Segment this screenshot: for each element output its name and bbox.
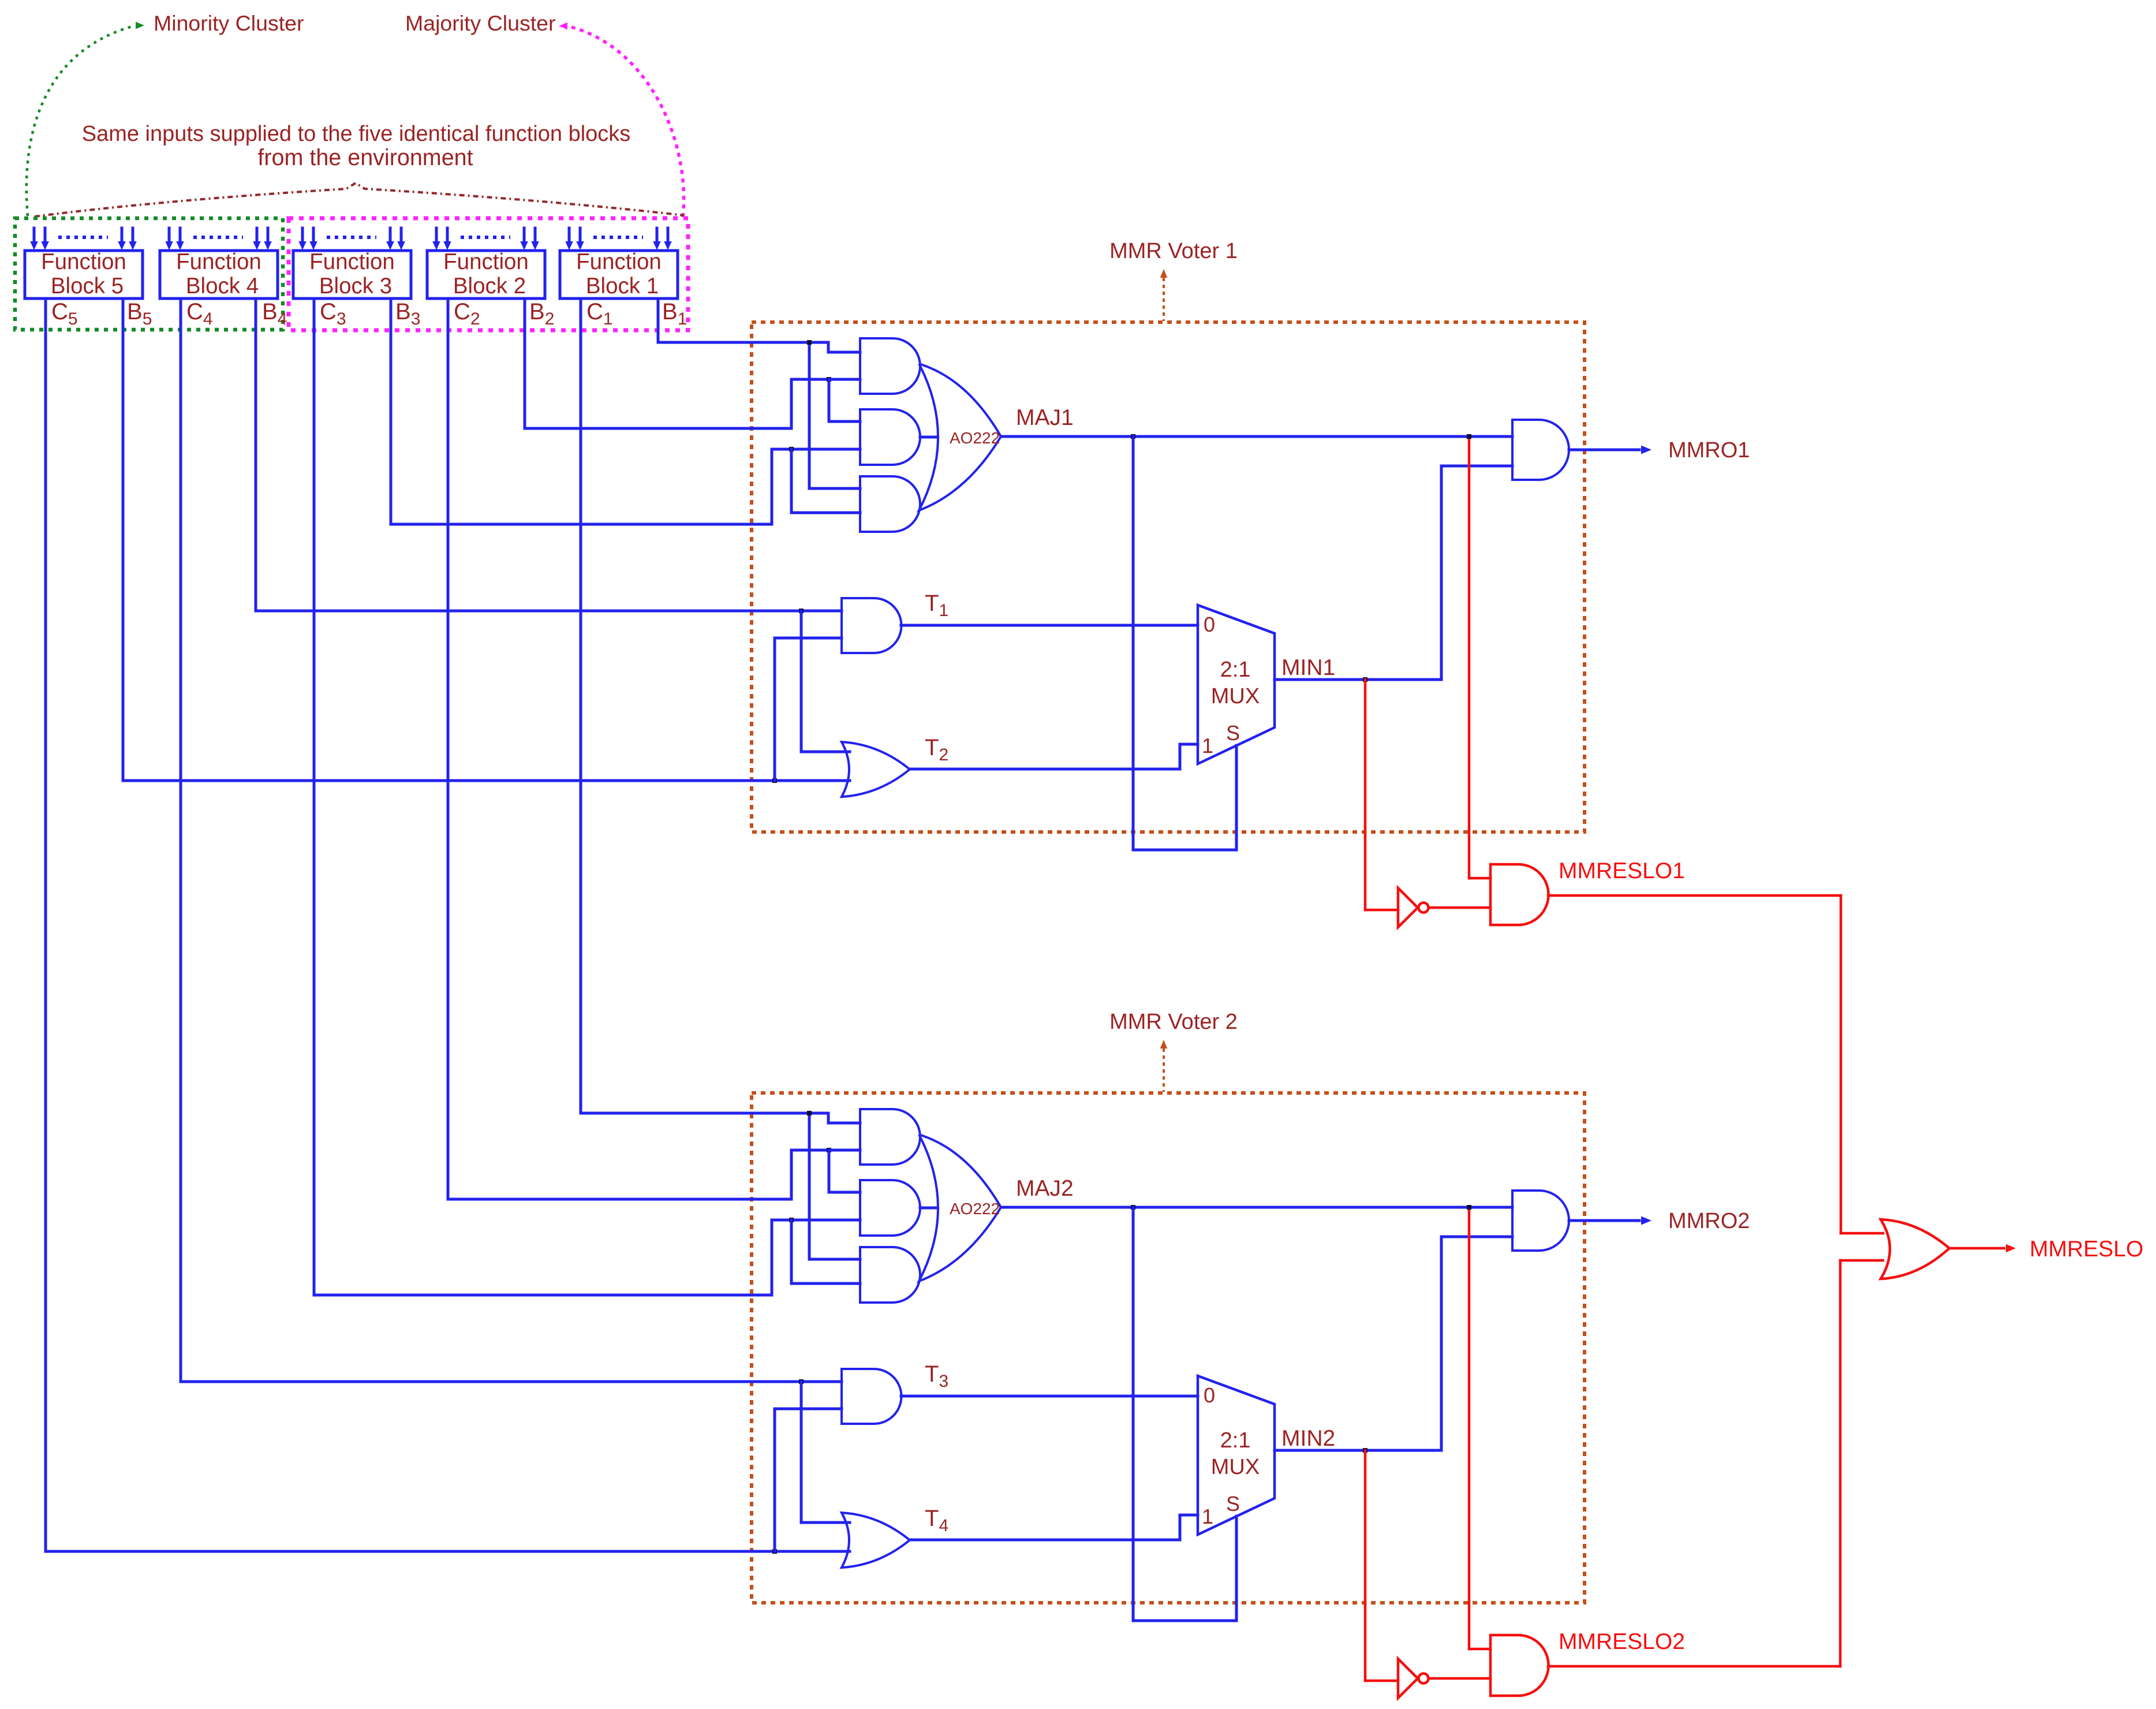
svg-text:MMRESLO: MMRESLO [2030, 1237, 2143, 1262]
svg-text:Function: Function [176, 249, 261, 274]
svg-text:1: 1 [1202, 734, 1213, 758]
svg-text:MMRESLO1: MMRESLO1 [1559, 859, 1685, 883]
svg-text:MIN1: MIN1 [1281, 655, 1335, 680]
svg-text:Block 2: Block 2 [453, 274, 526, 298]
svg-text:2:1: 2:1 [1220, 658, 1251, 682]
svg-text:AO222: AO222 [950, 429, 1000, 447]
svg-text:Block 4: Block 4 [186, 274, 259, 298]
svg-text:MAJ1: MAJ1 [1016, 405, 1074, 430]
svg-text:MUX: MUX [1211, 684, 1260, 708]
svg-text:S: S [1226, 721, 1240, 745]
svg-text:MMR Voter 1: MMR Voter 1 [1109, 239, 1238, 263]
svg-text:MIN2: MIN2 [1281, 1426, 1335, 1451]
svg-text:Minority Cluster: Minority Cluster [154, 11, 304, 35]
svg-text:MAJ2: MAJ2 [1016, 1176, 1074, 1201]
svg-text:0: 0 [1204, 613, 1215, 636]
svg-text:AO222: AO222 [950, 1200, 1000, 1218]
svg-text:MMRO2: MMRO2 [1668, 1209, 1750, 1233]
svg-text:Function: Function [309, 249, 395, 274]
svg-text:Function: Function [443, 249, 529, 274]
svg-text:from the environment: from the environment [257, 145, 473, 170]
svg-text:0: 0 [1204, 1383, 1215, 1407]
svg-text:Block 1: Block 1 [586, 274, 659, 298]
svg-text:MMRO1: MMRO1 [1668, 438, 1750, 462]
svg-text:1: 1 [1202, 1505, 1213, 1528]
svg-text:Block 3: Block 3 [319, 274, 392, 298]
svg-text:Function: Function [41, 249, 126, 274]
svg-text:Majority Cluster: Majority Cluster [405, 11, 555, 35]
svg-text:2:1: 2:1 [1220, 1428, 1251, 1453]
svg-text:S: S [1226, 1492, 1240, 1516]
svg-text:MUX: MUX [1211, 1455, 1260, 1479]
svg-text:Block 5: Block 5 [51, 274, 124, 298]
svg-text:MMR Voter 2: MMR Voter 2 [1109, 1010, 1238, 1034]
svg-text:Same inputs supplied to the fi: Same inputs supplied to the five identic… [82, 122, 631, 146]
svg-text:MMRESLO2: MMRESLO2 [1559, 1629, 1685, 1654]
svg-text:Function: Function [576, 249, 662, 274]
